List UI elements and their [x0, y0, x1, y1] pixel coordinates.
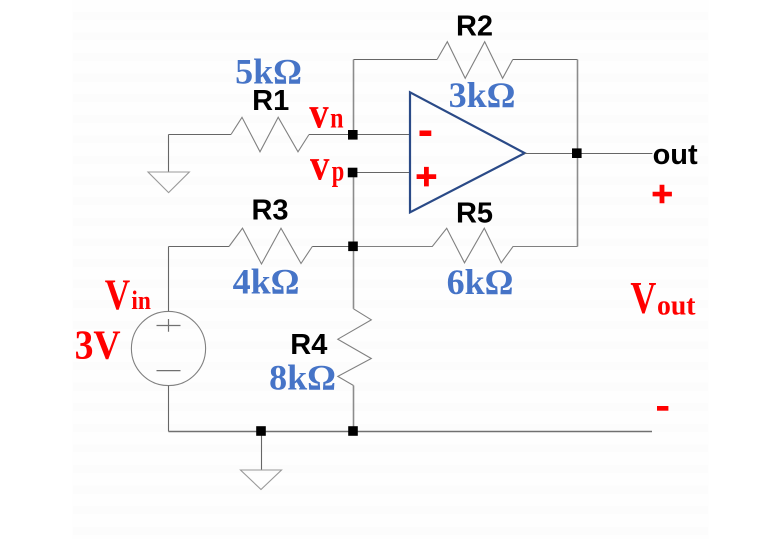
- op-amp non-inverting input marker: [417, 167, 437, 187]
- node out junction square: [572, 148, 582, 158]
- wire: bottom rail: [169, 431, 653, 433]
- svg-text:out: out: [653, 139, 698, 171]
- ground (R1 left): [148, 172, 189, 193]
- svg-text:v: v: [310, 140, 329, 189]
- resistor R3: [229, 228, 312, 264]
- svg-text:5kΩ: 5kΩ: [235, 52, 302, 92]
- wire: top rail left lead to R2: [354, 59, 438, 61]
- wire: vn node up to feedback rail: [353, 60, 355, 135]
- resistor R2: [437, 42, 513, 79]
- svg-text:8kΩ: 8kΩ: [269, 358, 336, 398]
- svg-text:R2: R2: [456, 11, 493, 43]
- node junction R3/R4/R5 square: [348, 242, 358, 252]
- op-amp U1: [410, 92, 525, 212]
- svg-text:v: v: [309, 89, 328, 138]
- svg-text:p: p: [332, 154, 345, 187]
- wire: vp node to op-amp non-inverting input: [354, 172, 411, 174]
- wire: op-amp output to out terminal: [525, 153, 653, 155]
- wire: R1 left lead: [169, 134, 232, 136]
- svg-text:V: V: [630, 273, 656, 323]
- svg-text:6kΩ: 6kΩ: [447, 262, 514, 302]
- svg-text:R3: R3: [251, 195, 288, 227]
- svg-text:4kΩ: 4kΩ: [233, 262, 300, 302]
- op-amp inverting input marker: [420, 131, 432, 137]
- output minus terminal marker: [657, 406, 668, 411]
- wire: source bottom to bottom rail: [168, 386, 170, 432]
- wire: junction down to R4: [353, 247, 355, 309]
- svg-text:n: n: [330, 102, 344, 135]
- resistor R5: [354, 228, 578, 263]
- svg-text:out: out: [657, 290, 696, 321]
- output plus terminal marker: [653, 185, 672, 204]
- wire: R1 right lead to vn node: [309, 134, 354, 136]
- svg-text:R4: R4: [290, 329, 327, 361]
- resistor R1: [231, 117, 309, 152]
- node bottom-rail/R4 junction square: [348, 426, 358, 436]
- node vp junction square: [348, 168, 358, 178]
- svg-text:in: in: [131, 286, 151, 315]
- wire: ground stub: [261, 432, 263, 470]
- node vn junction square: [348, 130, 358, 140]
- wire: R4 bottom lead to bottom rail: [353, 386, 355, 432]
- wire: R1 left lead down to ground: [168, 135, 170, 172]
- voltage source V1: [131, 311, 205, 385]
- wire: R3 left lead: [169, 246, 230, 248]
- node bottom-rail/ground junction square: [256, 426, 266, 436]
- svg-text:3V: 3V: [75, 322, 121, 368]
- wire: vn node to op-amp inverting input: [354, 134, 411, 136]
- ground (bottom rail): [241, 470, 282, 490]
- wire: R2 right lead to right rail: [513, 59, 578, 61]
- wire: vp node down to R3/R5 junction: [353, 173, 355, 247]
- svg-text:V: V: [105, 272, 130, 319]
- svg-text:3kΩ: 3kΩ: [449, 75, 516, 115]
- svg-text:R5: R5: [456, 197, 493, 229]
- wire: right rail down to output node: [577, 60, 579, 154]
- voltage source plus marker: [157, 319, 181, 332]
- wire: output node down to R5: [577, 154, 579, 247]
- resistor R4: [338, 309, 372, 386]
- voltage source minus marker: [157, 370, 181, 372]
- wire: R3 right lead to junction: [312, 246, 353, 248]
- wire: R3 left lead down to source V1: [168, 247, 170, 312]
